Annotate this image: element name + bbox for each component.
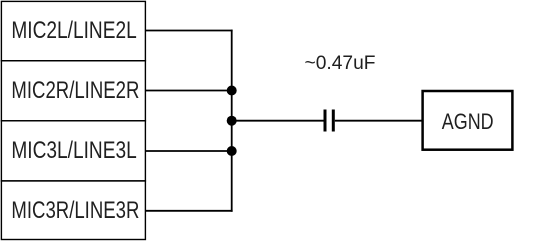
- wire bus vertical: [231, 30, 233, 212]
- block MIC2R/LINE2R: [1, 61, 145, 121]
- block MIC3R/LINE3R: [1, 181, 145, 240]
- svg-text:MIC2R/LINE2R: MIC2R/LINE2R: [11, 77, 139, 104]
- junction dot MIC2R: [227, 86, 237, 96]
- block MIC3L/LINE3L: [1, 121, 145, 181]
- svg-text:MIC3R/LINE3R: MIC3R/LINE3R: [11, 197, 139, 224]
- wire capacitor to AGND: [335, 120, 422, 122]
- wire MIC2L to bus: [145, 30, 232, 32]
- svg-text:AGND: AGND: [442, 109, 494, 134]
- block AGND: [423, 91, 513, 150]
- junction dot MIC3L: [227, 146, 237, 156]
- block MIC2L/LINE2L: [1, 1, 145, 60]
- junction dot main wire: [227, 116, 237, 126]
- wire bus to capacitor C1: [232, 120, 324, 122]
- capacitor C1 ~0.47uF: [324, 110, 335, 132]
- svg-text:~0.47uF: ~0.47uF: [305, 53, 376, 74]
- svg-text:MIC2L/LINE2L: MIC2L/LINE2L: [11, 17, 136, 44]
- wire MIC2R to bus: [145, 90, 231, 92]
- wire MIC3L to bus: [145, 150, 231, 152]
- svg-text:MIC3L/LINE3L: MIC3L/LINE3L: [11, 137, 136, 164]
- wire MIC3R to bus: [145, 210, 232, 212]
